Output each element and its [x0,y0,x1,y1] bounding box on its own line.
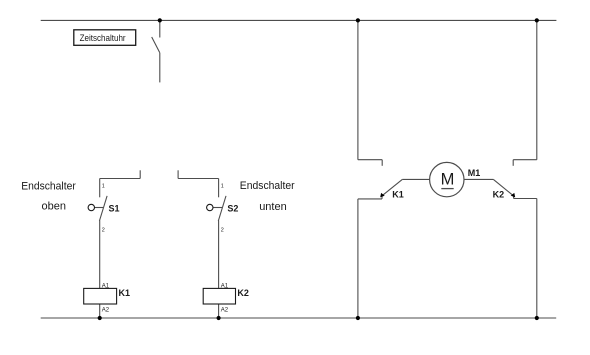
wire S1 top horizontal [100,178,141,180]
svg-text:oben: oben [42,201,66,213]
switch S1 contact lever [99,196,107,221]
node dot top rail / left branch [356,18,360,22]
wire contact K2 upper horizontal [513,159,537,161]
switch Zeitschaltuhr contact lever [152,37,160,53]
node dot bottom rail / K1 [98,316,102,320]
wire contact K1 upper horizontal [358,159,382,161]
wire bottom return rail [41,317,557,319]
node dot bottom rail / K2 [217,316,221,320]
wire left branch vertical from top rail [357,20,359,159]
svg-text:1: 1 [221,184,224,190]
coil K2 box [203,288,235,304]
svg-text:A2: A2 [221,308,229,314]
wire S1 top stub [139,170,141,178]
svg-text:S2: S2 [227,204,238,214]
label box Zeitschaltuhr [74,30,136,46]
wire top supply rail [41,19,557,21]
switch S2 actuator circle [207,204,213,210]
switch S1 actuator circle [88,204,94,210]
node dot top rail / timer [158,18,162,22]
wire coil K1 A2 to bottom rail [99,304,101,318]
svg-text:A1: A1 [102,283,110,289]
wire S2 top stub [177,170,179,178]
wire contact K1 common stub [381,196,383,199]
wire left branch vertical to bottom rail [357,199,359,318]
wire S2 pin 2 lead down to coil K2 [218,221,220,289]
wire contact K1 to motor [402,178,429,180]
svg-text:2: 2 [221,228,224,234]
contact K1 lever arrowhead [380,193,385,198]
wire contact K2 common stub [513,196,515,199]
svg-text:A1: A1 [221,283,229,289]
svg-text:K2: K2 [493,189,505,199]
wire right branch vertical to bottom rail [536,199,538,319]
svg-text:M: M [441,170,455,188]
svg-text:K1: K1 [119,288,131,298]
contact K2 lever [493,179,514,196]
node dot bottom rail / right branch [535,316,539,320]
motor M1 circle [430,162,464,196]
motor M1 underline [441,188,453,190]
svg-text:M1: M1 [468,168,481,178]
wire timer drop from top rail [159,20,161,37]
switch S2 actuator link [213,207,222,209]
svg-text:Zeitschaltuhr: Zeitschaltuhr [80,33,126,43]
svg-text:Endschalter: Endschalter [240,180,295,192]
switch S1 actuator link [95,207,104,209]
svg-text:S1: S1 [109,204,120,214]
wire motor to contact K2 [464,178,493,180]
wire contact K2 lower horizontal [514,198,537,200]
coil K1 box [84,288,117,304]
wire coil K2 A2 to bottom rail [218,304,220,318]
wire S1 pin 1 lead [99,179,101,198]
contact K2 lever arrowhead [511,193,516,198]
wire S1 pin 2 lead down to coil K1 [99,221,101,289]
svg-text:2: 2 [102,228,105,234]
svg-text:Endschalter: Endschalter [21,181,76,193]
wire contact K1 upper fixed stub [381,160,383,166]
wire below timer switch [159,53,161,83]
wire S2 top horizontal [178,178,219,180]
svg-text:K2: K2 [237,288,249,298]
svg-text:K1: K1 [392,189,404,199]
svg-text:unten: unten [259,201,287,213]
wire contact K2 upper fixed stub [512,160,514,166]
switch S2 contact lever [218,196,226,221]
wire right branch vertical from top rail [536,20,538,159]
wire S2 pin 1 lead [218,179,220,198]
contact K1 lever [381,179,402,196]
node dot top rail / right branch [535,18,539,22]
wire contact K1 lower horizontal [358,198,382,200]
svg-text:1: 1 [102,184,105,190]
svg-text:A2: A2 [102,308,110,314]
node dot bottom rail / left branch [356,316,360,320]
